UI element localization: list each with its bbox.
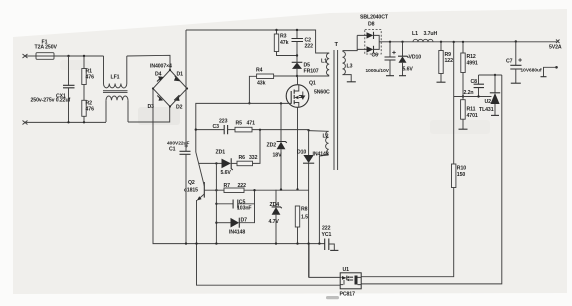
svg-text:3.7uH: 3.7uH (424, 31, 438, 37)
svg-text:250v-275v 0.22uf: 250v-275v 0.22uf (31, 97, 71, 103)
node: column/C3 junction (195, 128, 197, 130)
node: R1 top (83, 55, 85, 57)
wire: base/sense wire y190 (204, 189, 224, 191)
svg-text:C1: C1 (169, 147, 176, 153)
top DC+ rail (primary) (186, 30, 329, 53)
svg-text:43k: 43k (257, 81, 266, 87)
svg-text:YC1: YC1 (322, 232, 332, 238)
svg-text:5N60C: 5N60C (314, 90, 330, 96)
winding L2 (aux) (323, 131, 329, 155)
svg-text:47k: 47k (280, 40, 289, 46)
node: R7 right / C5 column (253, 189, 255, 191)
bottom page smudge (326, 296, 339, 299)
svg-text:4701: 4701 (467, 113, 478, 119)
capacitor CX1 250v-275v 0.22uF (31, 56, 75, 122)
node: C2 top on rail (296, 29, 298, 31)
node: R2 bottom (83, 121, 85, 123)
resistor R11 4701 (lower divider) (459, 97, 478, 130)
svg-text:D8: D8 (368, 22, 375, 28)
wire: L2 bottom to ground rail (319, 155, 328, 244)
svg-text:R8: R8 (301, 207, 308, 213)
node: ZD1 wire to x217 column (215, 162, 217, 164)
svg-text:5.6V: 5.6V (403, 67, 414, 73)
shunt regulator TL431 (479, 74, 500, 116)
node: D5 anode / drain wire (296, 75, 298, 77)
resistor R7 222 (224, 183, 309, 193)
resistor R6 332 (237, 130, 260, 166)
svg-text:C7: C7 (506, 59, 513, 65)
svg-text:T: T (335, 42, 339, 48)
svg-text:IN4148: IN4148 (313, 151, 329, 157)
zener ZD2 18V (gate clamp) (267, 102, 287, 189)
svg-text:TL431: TL431 (479, 107, 494, 113)
node: R3 top on rail (275, 29, 277, 31)
svg-text:R11: R11 (467, 107, 476, 113)
svg-text:U1: U1 (343, 267, 350, 273)
MOSFET Q1 5N60C (286, 81, 330, 108)
dual schottky D8 SBL2040CT (357, 15, 390, 55)
node: feedback ref node (462, 95, 464, 97)
transformer core (334, 50, 338, 170)
diode D7 IN4148 (216, 204, 254, 236)
svg-text:c1815: c1815 (184, 188, 198, 194)
winding L3 (secondary) (343, 52, 353, 75)
resistor R5 471 (235, 121, 309, 132)
svg-text:C6: C6 (372, 53, 379, 59)
winding L1 (primary) (321, 53, 329, 75)
wire: bottom rail LF1 to bridge bottom vertex (128, 107, 170, 123)
node: D7 branch left (215, 222, 217, 224)
svg-text:4.7V: 4.7V (269, 219, 280, 225)
svg-text:R5: R5 (236, 121, 243, 127)
svg-text:R3: R3 (280, 34, 287, 40)
zener VD10 5.6V (398, 41, 421, 76)
node: x217 on ground rail (215, 242, 217, 244)
svg-text:471: 471 (247, 121, 256, 127)
svg-text:L1: L1 (321, 59, 327, 65)
svg-text:D2: D2 (176, 104, 183, 110)
bridge diamond wires (153, 70, 187, 107)
column x217 (ZD1 wire to ground) (215, 163, 217, 243)
diode D1 (top-right arm) (174, 71, 183, 81)
transistor Q2 c1815 (184, 152, 204, 244)
svg-text:18V: 18V (273, 153, 283, 159)
svg-text:4991: 4991 (467, 61, 478, 67)
svg-text:1000u/10V: 1000u/10V (366, 68, 390, 74)
svg-text:122: 122 (445, 58, 454, 64)
wire: top AC rail (54, 55, 104, 57)
wire: input top rail to fuse (25, 55, 36, 57)
wire: L3 bottom return to gnd stub (343, 75, 356, 82)
node: base wire to x217 column (215, 189, 217, 191)
svg-text:222: 222 (322, 226, 331, 232)
svg-text:5.6V: 5.6V (221, 170, 232, 176)
svg-text:IN4148: IN4148 (229, 230, 245, 236)
svg-text:L3: L3 (347, 64, 353, 70)
svg-text:R6: R6 (239, 155, 246, 161)
diode D5 FR107 (clamp) (292, 56, 319, 77)
capacitor C8 2.2n (464, 75, 485, 98)
node: Q2 emitter on ground rail (195, 242, 197, 244)
svg-text:476: 476 (86, 75, 95, 81)
svg-text:R10: R10 (457, 166, 466, 172)
svg-text:10V680uf: 10V680uf (521, 68, 542, 74)
svg-text:Q2: Q2 (188, 180, 195, 186)
svg-text:U2: U2 (485, 99, 492, 105)
wire: U1 pin2 to primary ground rail via left riser (197, 244, 341, 286)
capacitor C5 103nF (216, 190, 254, 211)
diode D2 (bottom-right arm) (174, 95, 182, 110)
node: C5 branch left (215, 203, 217, 205)
diode D4 (top-left arm) (155, 71, 164, 81)
resistor R9 122 (437, 41, 454, 83)
svg-text:IN4007×4: IN4007×4 (150, 64, 172, 70)
node: source to sense wire (296, 188, 298, 190)
resistor R1 476 (82, 56, 94, 85)
common-mode choke LF1 (103, 56, 128, 122)
svg-text:476: 476 (86, 107, 95, 113)
node: C1 on ground rail (185, 242, 187, 244)
svg-text:T2A 250V: T2A 250V (35, 45, 58, 51)
wire: Q1 drain (297, 76, 299, 85)
node: L2 return on ground rail (318, 242, 320, 244)
svg-text:LF1: LF1 (111, 75, 120, 81)
fuse F1 T2A 250V (35, 40, 58, 60)
diode D3 (bottom-left arm) (148, 96, 164, 110)
svg-text:D1: D1 (177, 71, 184, 77)
svg-text:R12: R12 (467, 54, 476, 60)
capacitor C2 222 (snubber) (292, 30, 314, 56)
svg-text:223: 223 (219, 118, 228, 124)
node: aux feed corner to D10 (307, 129, 309, 131)
svg-text:2.2n: 2.2n (464, 90, 474, 96)
svg-text:ZD1: ZD1 (216, 150, 226, 156)
svg-text:VD10: VD10 (409, 54, 422, 60)
output return terminal (541, 66, 558, 77)
node: CX1 top (67, 55, 69, 57)
wire: gate drive wire y130 with C3-R5 (196, 129, 224, 131)
wire: U1 pin1 to primary ground rail (309, 244, 340, 278)
resistor R4 43k (249, 68, 273, 103)
resistor R10 150 (361, 41, 466, 277)
wire: gate feed corner / column x196 (196, 103, 287, 152)
node: R6 riser on gate drive wire (259, 129, 261, 131)
capacitor C7 10V680uf (506, 40, 542, 83)
wire: L2 top to D10/feed wire (309, 130, 329, 133)
wire: top rail from LF1 to bridge (127, 55, 170, 70)
svg-text:SBL2040CT: SBL2040CT (360, 15, 389, 21)
wire: drain node to L1 primary bottom (274, 75, 330, 77)
node: D10 column on ground rail (307, 242, 309, 244)
svg-text:150: 150 (457, 172, 466, 178)
svg-text:Q1: Q1 (309, 81, 316, 87)
svg-text:C3: C3 (213, 124, 220, 130)
zener ZD1 5.6V (199, 150, 237, 177)
svg-text:1.5: 1.5 (301, 215, 308, 221)
svg-text:PC817: PC817 (340, 292, 356, 298)
node: ZD2 on sense wire (280, 188, 282, 190)
node: R8 on ground rail (296, 242, 298, 244)
resistor R8 1.5 (current sense) (295, 206, 308, 244)
wire: ref wire to TL431 ref (454, 96, 492, 98)
resistor R12 4991 (upper divider) (461, 41, 478, 97)
inductor L1 3.7uH (output filter) (412, 31, 437, 42)
secondary +5V rail (390, 41, 558, 43)
svg-text:ZD2: ZD2 (267, 142, 277, 148)
svg-text:5V2A: 5V2A (549, 45, 562, 51)
AC input terminal N (bottom left) (23, 121, 28, 125)
AC input terminal L (top left) (23, 54, 28, 58)
svg-text:332: 332 (249, 155, 258, 161)
wire: bottom AC rail (25, 121, 106, 123)
wire: DC- left vertex down across AC rail to primary ground rail (153, 89, 325, 244)
svg-text:L2: L2 (323, 134, 329, 140)
svg-text:222: 222 (305, 43, 314, 49)
wire: L3 top to D8 anodes (343, 35, 358, 50)
diode D10 IN4148 (297, 130, 329, 277)
node: ZD4 on ground rail (275, 242, 277, 244)
capacitor C3 223 (213, 118, 236, 134)
resistor R2 476 (82, 85, 94, 123)
svg-text:R4: R4 (256, 68, 263, 74)
svg-text:103nF: 103nF (237, 206, 252, 212)
optocoupler U1 PC817 (340, 267, 362, 298)
node: R4 on gate wire (248, 102, 250, 104)
wire: Q1 source down to sense wire (297, 107, 299, 189)
capacitor C6 1000u/10V (366, 41, 396, 76)
svg-text:D10: D10 (297, 149, 306, 155)
wire: C8/TL431 top wire to opto column (479, 74, 502, 76)
capacitor YC1 222 (Y-cap) (322, 226, 339, 251)
node: CX1 bottom (67, 121, 69, 123)
svg-text:L1: L1 (412, 31, 418, 37)
resistor R3 47k (snubber) (274, 30, 297, 56)
svg-text:FR107: FR107 (304, 68, 319, 74)
wire: DC+ column from top rail through right vertex to C1 (185, 30, 187, 151)
wire: opto LED cathode column down to U1 (361, 75, 502, 284)
capacitor C1 400V22uF (bulk electrolytic) (167, 141, 191, 244)
output terminal +5V (549, 40, 562, 51)
zener ZD4 4.7V (269, 190, 282, 244)
